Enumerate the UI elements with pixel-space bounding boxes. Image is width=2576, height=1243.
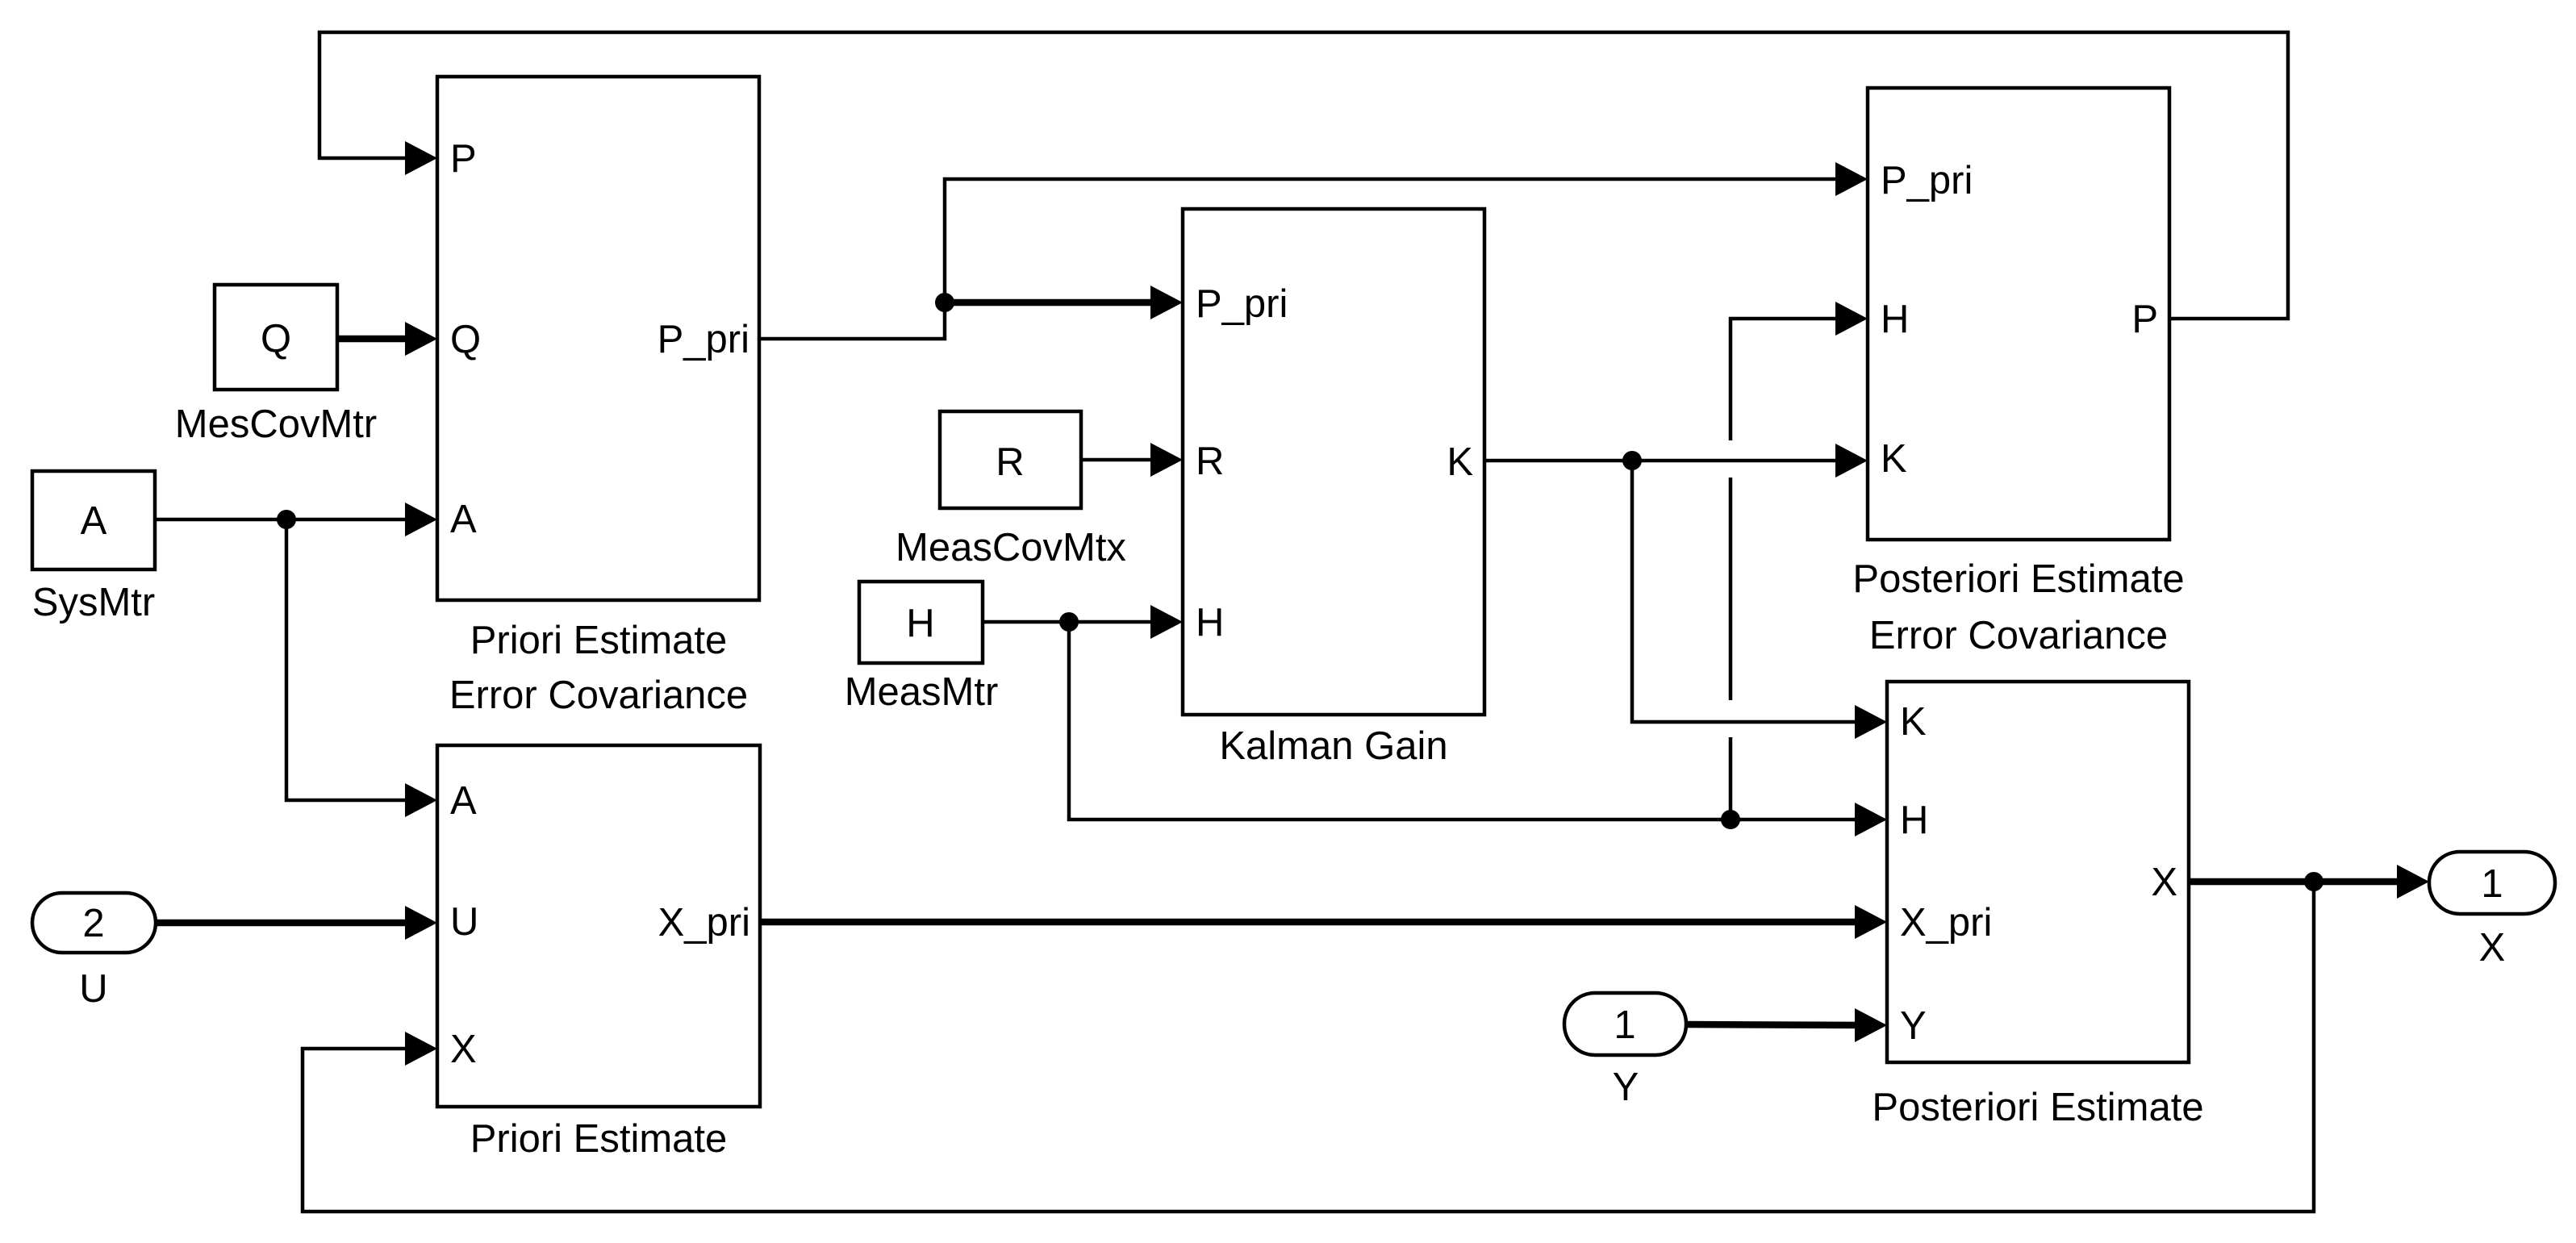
svg-text:R: R — [1196, 440, 1224, 483]
svg-text:2: 2 — [82, 902, 104, 945]
wire A branch down to Priori Estimate A input — [286, 519, 413, 800]
svg-text:H: H — [906, 602, 934, 645]
input port 1 (Y) — [1564, 993, 1686, 1055]
svg-text:MesCovMtr: MesCovMtr — [175, 403, 377, 446]
svg-text:R: R — [996, 440, 1024, 484]
wire input 1 (Y) to Posteriori Estimate (bold) — [1686, 1008, 1887, 1042]
subsystem block "Priori Estimate Error Covariance" — [437, 77, 759, 717]
svg-text:K: K — [1900, 700, 1927, 744]
wire P_pri output net — [759, 162, 1868, 339]
svg-text:P: P — [2131, 298, 2158, 341]
svg-text:H: H — [1881, 298, 1909, 341]
svg-text:P_pri: P_pri — [1196, 282, 1288, 326]
subsystem block "Posteriori Estimate Error Covariance" — [1852, 88, 2184, 657]
svg-text:P_pri: P_pri — [1881, 159, 1973, 202]
svg-text:Error Covariance: Error Covariance — [1869, 614, 2168, 657]
svg-text:Y: Y — [1613, 1066, 1639, 1109]
wire K branch down to Posteriori Estimate K input — [1632, 461, 1863, 722]
subsystem block "Kalman Gain" — [1183, 209, 1484, 768]
junction on P_pri net — [935, 293, 954, 312]
svg-text:U: U — [79, 967, 107, 1011]
junction on X output wire — [2304, 872, 2323, 891]
svg-text:Posteriori Estimate: Posteriori Estimate — [1852, 557, 2184, 601]
svg-text:Priori Estimate: Priori Estimate — [470, 619, 728, 662]
wire X_pri output to Posteriori Estimate (bold) — [760, 905, 1887, 939]
wire X output to port 1 (bold) — [303, 865, 2429, 1212]
svg-text:K: K — [1447, 440, 1473, 484]
constant block R — [940, 411, 1081, 508]
svg-text:H: H — [1900, 799, 1928, 842]
wire P feedback (Posteriori P output to Priori P input) — [319, 32, 2288, 319]
svg-text:1: 1 — [1614, 1003, 1635, 1047]
svg-text:X_pri: X_pri — [1900, 901, 1992, 945]
svg-text:Kalman Gain: Kalman Gain — [1219, 724, 1447, 768]
wire input 2 (U) to Priori Estimate (bold) — [154, 906, 437, 940]
svg-text:Error Covariance: Error Covariance — [449, 674, 748, 717]
wire K output net — [1484, 444, 1887, 739]
subsystem block "Priori Estimate" — [437, 745, 760, 1161]
svg-text:Priori Estimate: Priori Estimate — [470, 1117, 728, 1161]
subsystem block "Posteriori Estimate" — [1872, 682, 2203, 1129]
wire A to both Priori blocks — [155, 503, 437, 817]
wire H branch up to Posteriori Estimate Error Covariance H input (with crossing gaps) — [1729, 737, 1733, 820]
svg-text:H: H — [1196, 601, 1224, 644]
constant block A — [32, 471, 155, 569]
svg-text:X: X — [2151, 861, 2177, 904]
svg-text:A: A — [450, 779, 477, 823]
svg-text:X: X — [2479, 926, 2506, 970]
junction on K wire — [1622, 451, 1642, 470]
svg-text:MeasMtr: MeasMtr — [845, 670, 999, 714]
svg-text:A: A — [450, 498, 477, 541]
svg-text:Q: Q — [450, 318, 481, 361]
wire P_pri to Kalman Gain (bold) — [945, 299, 1159, 307]
output port 1 (X) — [2429, 852, 2555, 914]
constant block H — [859, 582, 983, 663]
junction on lower H wire — [1721, 810, 1740, 829]
input port 2 (U) — [32, 893, 156, 953]
wire X feedback down, left and up to Priori Estimate X input — [303, 882, 2314, 1212]
svg-text:P_pri: P_pri — [658, 318, 749, 361]
constant block Q — [215, 285, 337, 390]
junction on A wire — [277, 510, 296, 529]
wire H branch down and right to Posteriori Estimate H input — [1069, 622, 1863, 820]
svg-text:MeasCovMtx: MeasCovMtx — [896, 526, 1126, 569]
svg-text:Y: Y — [1900, 1004, 1927, 1048]
wire R to Kalman Gain — [1081, 443, 1183, 477]
svg-text:U: U — [450, 900, 478, 944]
svg-text:K: K — [1881, 437, 1907, 481]
svg-text:X_pri: X_pri — [658, 901, 750, 945]
junction on H wire — [1059, 612, 1079, 632]
svg-text:P: P — [450, 137, 477, 181]
svg-text:Q: Q — [261, 317, 291, 361]
svg-text:SysMtr: SysMtr — [32, 581, 155, 624]
svg-text:X: X — [450, 1028, 477, 1071]
svg-text:A: A — [81, 499, 107, 543]
svg-text:Posteriori Estimate: Posteriori Estimate — [1872, 1086, 2203, 1129]
wire Q to Priori Estimate Error Covariance (bold) — [337, 322, 437, 356]
wire H net — [983, 302, 1887, 836]
svg-text:1: 1 — [2481, 862, 2503, 906]
